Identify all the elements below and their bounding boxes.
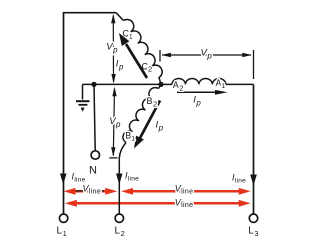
- current arrow Ip winding A: [177, 90, 228, 95]
- svg-text:Vline: Vline: [175, 184, 194, 196]
- svg-text:Vp: Vp: [109, 116, 121, 129]
- terminal N: [91, 151, 99, 159]
- wire: winding A to right bus: [226, 83, 254, 85]
- svg-text:L3: L3: [248, 226, 258, 238]
- svg-text:B1: B1: [125, 131, 135, 143]
- junction node delta corner: [158, 82, 163, 87]
- svg-text:Ip: Ip: [193, 95, 201, 108]
- junction node N tap: [91, 82, 96, 87]
- svg-text:Iline: Iline: [232, 173, 246, 185]
- dimension Vp/Ip left (top corner to neutral bus): [111, 14, 116, 84]
- wire: winding B to L2: [119, 143, 126, 214]
- svg-text:L2: L2: [115, 226, 125, 238]
- ground stub: [82, 84, 84, 99]
- svg-text:Ip: Ip: [156, 120, 164, 133]
- svg-text:Vp: Vp: [106, 42, 118, 55]
- svg-text:Vline: Vline: [83, 184, 102, 196]
- winding C (coil C1-C2): [124, 19, 163, 84]
- dimension Vp mid (neutral bus to B1 level): [109, 87, 117, 158]
- wire: to neutral terminal: [94, 84, 95, 150]
- phasor arrow Ip winding B: [134, 101, 160, 149]
- terminal L1: [59, 214, 67, 222]
- wire: junction to winding A: [161, 83, 172, 85]
- terminal L2: [115, 214, 123, 222]
- wire: left bus from top corner down to L1: [64, 13, 117, 214]
- line current arrow L2: [116, 174, 123, 185]
- winding A (coil A2-A1): [172, 78, 226, 84]
- svg-text:L1: L1: [57, 226, 67, 238]
- ground symbol: [76, 101, 90, 112]
- red Vline arrow L1-L3: [65, 200, 251, 207]
- svg-text:Iline: Iline: [72, 172, 86, 184]
- svg-text:Iline: Iline: [125, 171, 139, 183]
- terminal L3: [249, 214, 257, 222]
- svg-text:Vline: Vline: [175, 197, 194, 209]
- wire: right bus down to L3: [253, 84, 255, 213]
- wire: neutral bus from ground tap to delta junction: [83, 83, 162, 85]
- svg-text:Vp: Vp: [201, 48, 213, 61]
- svg-text:A2: A2: [173, 80, 184, 92]
- phasor arrow Ip winding C: [119, 33, 147, 78]
- line current arrow L1: [60, 174, 67, 185]
- red Vline arrow L1-L2: [64, 188, 118, 195]
- winding B (coil B2-B1): [159, 84, 162, 88]
- line current arrow L3: [250, 175, 257, 186]
- wire: lead into winding C: [116, 13, 124, 21]
- svg-text:Ip: Ip: [116, 58, 124, 71]
- dimension Vp top right (junction to right bus): [160, 50, 254, 79]
- svg-text:B2: B2: [147, 96, 158, 108]
- red Vline arrow L2-L3: [121, 188, 251, 195]
- svg-text:N: N: [89, 165, 97, 177]
